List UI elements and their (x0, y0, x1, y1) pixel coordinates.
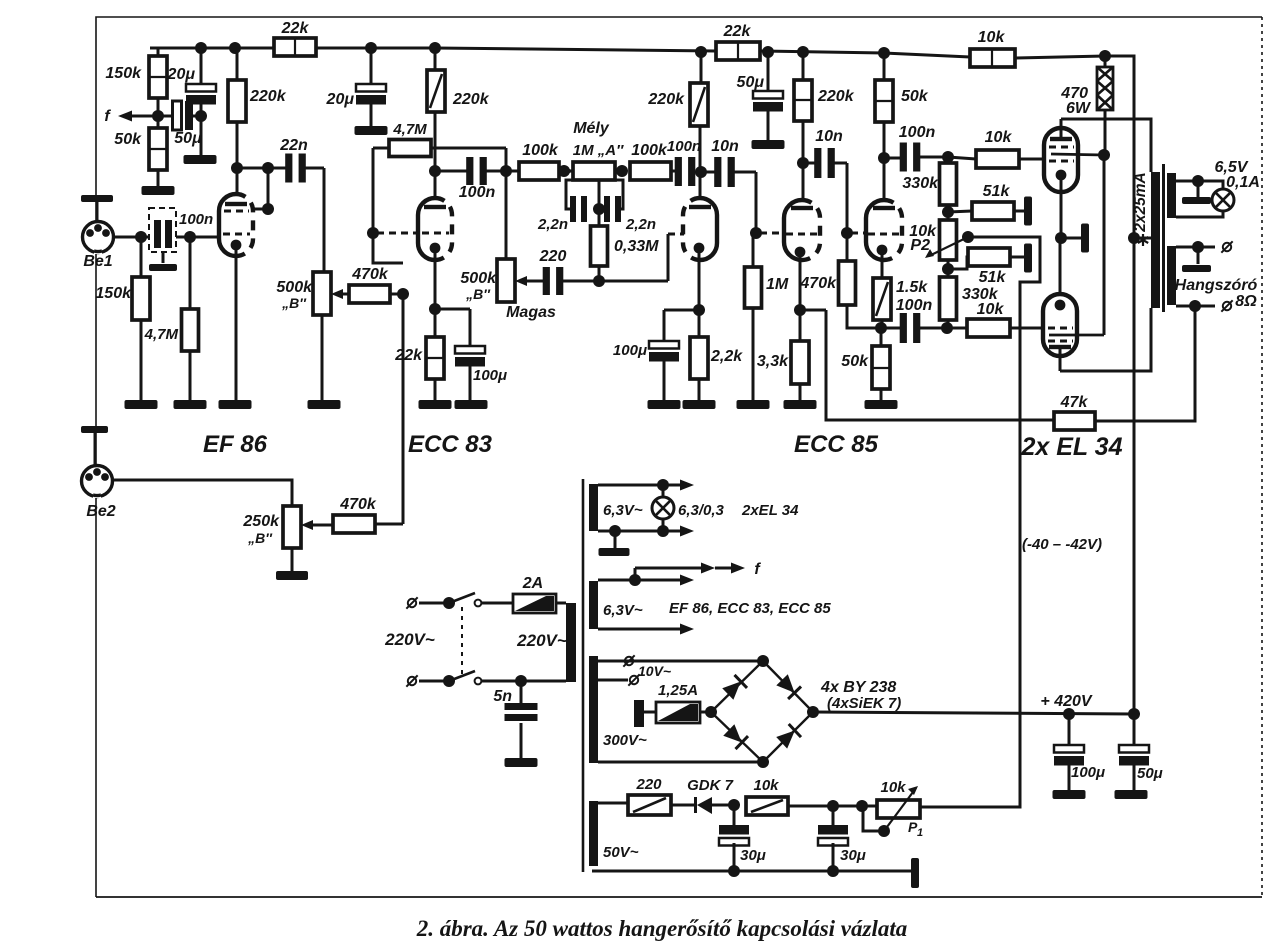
svg-text:3,3k: 3,3k (757, 353, 789, 370)
svg-text:220V~: 220V~ (516, 631, 567, 650)
svg-text:4,7M: 4,7M (144, 326, 179, 343)
svg-text:Be1: Be1 (83, 253, 112, 270)
svg-text:22n: 22n (279, 137, 308, 154)
svg-text:100k: 100k (631, 142, 668, 159)
svg-text:2xEL 34: 2xEL 34 (741, 502, 799, 519)
svg-text:6,3/0,3: 6,3/0,3 (678, 502, 725, 519)
svg-text:2x EL 34: 2x EL 34 (1020, 433, 1122, 461)
svg-text:100μ: 100μ (473, 367, 507, 384)
svg-text:150k: 150k (95, 285, 132, 302)
svg-text:50μ: 50μ (174, 130, 202, 147)
svg-text:„B″: „B″ (465, 286, 491, 302)
svg-text:10k: 10k (880, 779, 906, 796)
svg-text:220: 220 (635, 776, 662, 793)
svg-text:„B″: „B″ (281, 295, 307, 311)
svg-text:30μ: 30μ (840, 847, 866, 864)
svg-text:470k: 470k (339, 496, 377, 513)
svg-text:50k: 50k (114, 131, 142, 148)
svg-text:2A: 2A (522, 575, 543, 592)
svg-text:100n: 100n (179, 211, 213, 228)
svg-text:22k: 22k (723, 23, 752, 40)
svg-text:50V~: 50V~ (603, 844, 639, 861)
svg-text:2,2k: 2,2k (710, 348, 743, 365)
svg-text:500k: 500k (460, 270, 497, 287)
svg-text:Hangszóró: Hangszóró (1175, 277, 1258, 294)
svg-text:2,2n: 2,2n (625, 216, 656, 233)
svg-text:1: 1 (917, 827, 923, 839)
svg-text:50μ: 50μ (737, 74, 765, 91)
svg-text:470k: 470k (799, 275, 837, 292)
svg-text:10k: 10k (978, 29, 1006, 46)
svg-text:20μ: 20μ (326, 91, 355, 108)
svg-text:220: 220 (539, 248, 567, 265)
svg-text:1.5k: 1.5k (896, 279, 928, 296)
svg-text:ECC 83: ECC 83 (408, 431, 493, 458)
svg-text:2. ábra. Az 50 wattos hangerős: 2. ábra. Az 50 wattos hangerősítő kapcso… (416, 916, 908, 941)
svg-text:(4xSiEK 7): (4xSiEK 7) (827, 695, 901, 712)
svg-text:250k: 250k (242, 513, 280, 530)
svg-text:100k: 100k (522, 142, 559, 159)
svg-text:Magas: Magas (506, 304, 556, 321)
svg-text:100μ: 100μ (613, 342, 647, 359)
svg-text:0,1A: 0,1A (1226, 174, 1260, 191)
svg-text:100μ: 100μ (1071, 764, 1105, 781)
svg-text:6,3V~: 6,3V~ (603, 502, 643, 519)
svg-text:0,33M: 0,33M (614, 238, 659, 255)
svg-text:220k: 220k (249, 88, 287, 105)
svg-text:220k: 220k (817, 88, 855, 105)
svg-text:300V~: 300V~ (603, 732, 647, 749)
svg-text:4,7M: 4,7M (392, 121, 427, 138)
svg-text:EF 86: EF 86 (203, 431, 268, 458)
svg-text:Be2: Be2 (86, 503, 115, 520)
svg-text:6W: 6W (1066, 100, 1092, 117)
svg-text:10n: 10n (815, 128, 843, 145)
svg-text:30μ: 30μ (740, 847, 766, 864)
svg-text:47k: 47k (1060, 394, 1089, 411)
svg-text:2x25mA: 2x25mA (1132, 172, 1149, 232)
svg-text:20μ: 20μ (167, 66, 196, 83)
svg-text:6,3V~: 6,3V~ (603, 602, 643, 619)
svg-text:+ 420V: + 420V (1040, 693, 1092, 710)
svg-text:22k: 22k (281, 20, 310, 37)
svg-text:EF 86, ECC 83, ECC 85: EF 86, ECC 83, ECC 85 (669, 600, 831, 617)
svg-text:51k: 51k (983, 183, 1011, 200)
svg-text:100n: 100n (667, 138, 701, 155)
svg-text:330k: 330k (902, 175, 939, 192)
svg-text:100n: 100n (459, 184, 496, 201)
svg-text:100n: 100n (899, 124, 936, 141)
svg-text:150k: 150k (105, 65, 142, 82)
svg-text:10k: 10k (985, 129, 1013, 146)
svg-text:10k: 10k (753, 777, 779, 794)
svg-text:8Ω: 8Ω (1235, 293, 1257, 310)
svg-text:220V~: 220V~ (384, 630, 435, 649)
svg-text:10n: 10n (711, 138, 739, 155)
svg-text:100n: 100n (896, 297, 933, 314)
svg-text:1,25A: 1,25A (658, 682, 698, 699)
svg-text:22k: 22k (394, 347, 423, 364)
svg-text:GDK 7: GDK 7 (687, 777, 734, 794)
svg-text:10k: 10k (977, 301, 1005, 318)
svg-text:50k: 50k (901, 88, 929, 105)
svg-text:(-40 – -42V): (-40 – -42V) (1022, 536, 1102, 553)
svg-text:„B″: „B″ (247, 530, 273, 546)
svg-text:1M: 1M (766, 276, 789, 293)
svg-text:2,2n: 2,2n (537, 216, 568, 233)
svg-text:51k: 51k (979, 269, 1007, 286)
svg-text:470k: 470k (351, 266, 389, 283)
svg-text:1M „A″: 1M „A″ (573, 142, 624, 159)
svg-text:4x BY 238: 4x BY 238 (820, 679, 896, 696)
svg-text:500k: 500k (276, 279, 313, 296)
svg-text:50μ: 50μ (1137, 765, 1163, 782)
svg-text:50k: 50k (841, 353, 869, 370)
svg-text:ECC 85: ECC 85 (794, 431, 879, 458)
svg-text:5n: 5n (493, 688, 512, 705)
svg-text:P2: P2 (910, 237, 930, 254)
svg-text:220k: 220k (452, 91, 490, 108)
svg-text:Mély: Mély (573, 120, 610, 137)
svg-text:220k: 220k (647, 91, 685, 108)
svg-text:10V~: 10V~ (638, 663, 671, 679)
